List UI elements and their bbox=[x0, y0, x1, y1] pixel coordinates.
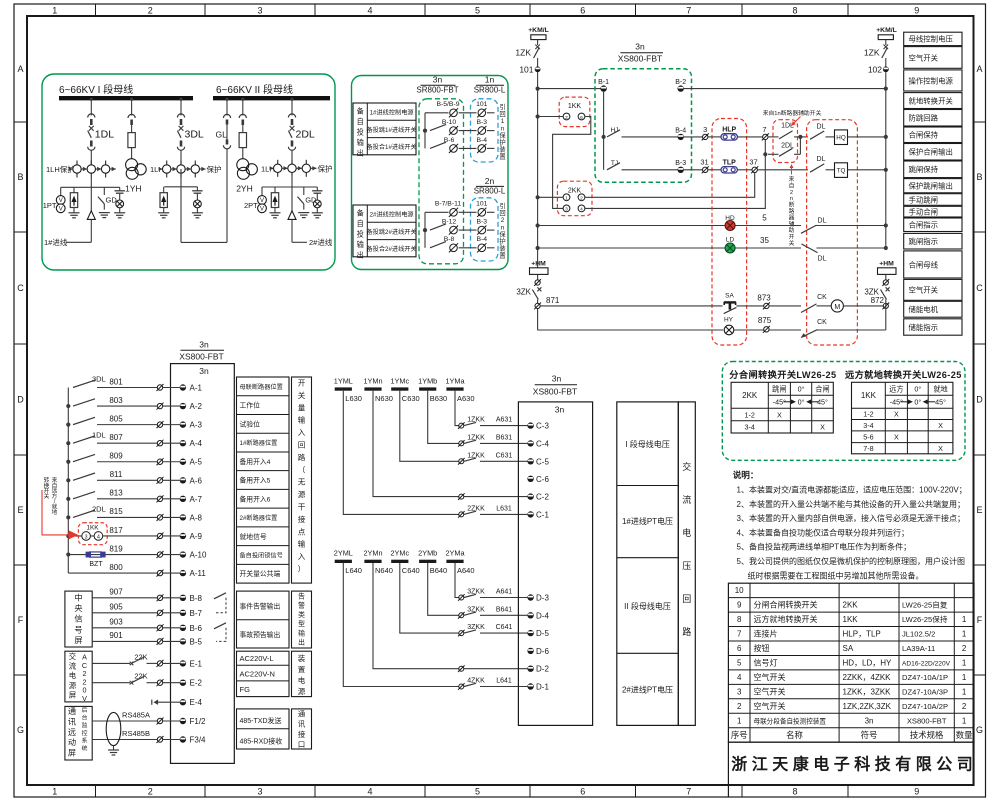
switching input group title bbox=[292, 377, 312, 583]
terminal D-2 bbox=[527, 666, 533, 672]
terminal A-4 input row bbox=[66, 441, 70, 445]
breaker 2DL plug-in contact bottom bbox=[291, 141, 294, 147]
svg-text:E: E bbox=[976, 505, 982, 515]
trip coil TQ bbox=[835, 163, 848, 178]
svg-text:2YMn: 2YMn bbox=[363, 549, 382, 558]
svg-text:事件告警输出: 事件告警输出 bbox=[240, 602, 281, 611]
svg-text:2n: 2n bbox=[485, 176, 495, 186]
wire HLP to 7 bbox=[737, 136, 762, 138]
trip indication row LD bbox=[536, 246, 540, 250]
svg-text:DZ47-10A/2P: DZ47-10A/2P bbox=[902, 702, 948, 711]
auto-transfer table bbox=[353, 205, 416, 257]
svg-text:分合闸转换开关LW26-25: 分合闸转换开关LW26-25 bbox=[729, 369, 836, 380]
function label 保护跳闸输出 bbox=[904, 179, 962, 193]
alarm output group title bbox=[292, 591, 312, 648]
function label 储能指示 bbox=[904, 319, 962, 335]
RS485 terminal F1/2 bbox=[157, 718, 162, 723]
svg-text:10: 10 bbox=[735, 586, 744, 595]
CT circle at x=166.7 bbox=[166, 161, 168, 178]
wire 3 to HLP bbox=[708, 136, 721, 138]
svg-text:B-3: B-3 bbox=[477, 119, 488, 126]
svg-text:SR800-L: SR800-L bbox=[474, 86, 506, 95]
svg-text:3n: 3n bbox=[433, 75, 443, 85]
signal row 905 bbox=[92, 612, 157, 614]
svg-text:8: 8 bbox=[792, 6, 797, 16]
terminal A-3 bbox=[157, 422, 162, 427]
PT 2PT windings bbox=[258, 196, 267, 205]
function label 操作控制电源 bbox=[904, 70, 962, 91]
parts list table bbox=[728, 583, 974, 742]
svg-text:HLP，TLP: HLP，TLP bbox=[843, 630, 881, 639]
svg-text:A-3: A-3 bbox=[190, 421, 203, 430]
closing coil HQ bbox=[835, 130, 848, 145]
svg-text:9: 9 bbox=[914, 6, 919, 16]
svg-text:远方就地转换开关LW26-25: 远方就地转换开关LW26-25 bbox=[845, 369, 962, 380]
voltage group table bbox=[617, 402, 679, 726]
CT circle at x=277.7 bbox=[277, 160, 279, 177]
svg-text:2、本装置的开入量公共端不能与其他设备的开入量公共端复用；: 2、本装置的开入量公共端不能与其他设备的开入量公共端复用； bbox=[737, 499, 965, 509]
wire 37 to DL trip contact bbox=[757, 169, 808, 171]
AC power panel box bbox=[65, 651, 92, 702]
svg-text:保护: 保护 bbox=[318, 164, 333, 174]
function label 合闸保持 bbox=[904, 127, 962, 143]
capacitor divider bbox=[316, 187, 318, 191]
alarm output labels table bbox=[237, 591, 290, 648]
svg-text:1KK: 1KK bbox=[568, 103, 582, 110]
svg-text:6~66KV II 段母线: 6~66KV II 段母线 bbox=[216, 83, 293, 96]
terminal A-2 input row bbox=[66, 404, 70, 408]
svg-text:远方: 远方 bbox=[889, 385, 903, 394]
svg-text:5、我公司提供的图纸仅仅是微机保护的控制原理图，用户设计图: 5、我公司提供的图纸仅仅是微机保护的控制原理图，用户设计图 bbox=[737, 556, 965, 566]
svg-text:V: V bbox=[59, 207, 63, 213]
function label 跳闸保持 bbox=[904, 161, 962, 178]
svg-text:XS800-FBT: XS800-FBT bbox=[618, 54, 662, 64]
collector line group3 bbox=[262, 186, 317, 188]
svg-text:符号: 符号 bbox=[861, 730, 878, 740]
svg-text:2KK: 2KK bbox=[843, 601, 859, 610]
svg-text:AD16-22D/220V: AD16-22D/220V bbox=[902, 660, 951, 667]
svg-text:+HM: +HM bbox=[531, 261, 546, 268]
svg-text:B: B bbox=[976, 172, 982, 182]
svg-text:GL: GL bbox=[216, 130, 228, 140]
svg-text:C-2: C-2 bbox=[536, 493, 549, 502]
selector table 2KK bbox=[731, 382, 833, 433]
contact DL row LD bbox=[802, 244, 818, 253]
svg-text:B-6: B-6 bbox=[444, 137, 455, 144]
svg-text:B641: B641 bbox=[496, 606, 512, 613]
contact row B-8 bbox=[430, 242, 446, 248]
wire 2KK row1 to 37 bbox=[585, 173, 755, 198]
svg-text:817: 817 bbox=[109, 526, 123, 535]
svg-text:2: 2 bbox=[148, 787, 153, 797]
CT circle at x=292 bbox=[291, 160, 293, 177]
svg-text:B-1: B-1 bbox=[598, 79, 609, 86]
svg-text:X: X bbox=[894, 433, 899, 442]
svg-text:1DL: 1DL bbox=[781, 123, 794, 130]
svg-text:2DL: 2DL bbox=[296, 129, 315, 141]
terminal A-2 bbox=[157, 403, 162, 408]
svg-text:空气开关: 空气开关 bbox=[754, 686, 786, 696]
XS800-FBT voltage box bbox=[518, 402, 592, 726]
svg-text:C631: C631 bbox=[496, 452, 513, 459]
svg-text:备自投闭锁信号: 备自投闭锁信号 bbox=[240, 551, 283, 559]
svg-text:RS485A: RS485A bbox=[122, 711, 150, 720]
contact row B-7/B-11 bbox=[425, 211, 449, 213]
output contact box DL HQ TQ (red) bbox=[807, 120, 858, 345]
breaker 3DL X mark bbox=[179, 126, 184, 131]
svg-text:+KM/L: +KM/L bbox=[528, 27, 549, 34]
terminal C-3 bbox=[527, 422, 533, 428]
surge arrester bbox=[163, 187, 165, 193]
breaker 2DL blade bbox=[288, 131, 292, 138]
svg-text:1: 1 bbox=[962, 658, 967, 667]
svg-text:HLP: HLP bbox=[722, 127, 736, 134]
voltage wire L631 bbox=[343, 391, 458, 515]
svg-text:储能指示: 储能指示 bbox=[909, 323, 939, 332]
terminal C-6 bbox=[527, 476, 533, 482]
svg-text:1、本装置对交/直流电源都能适应，适应电压范围：100V-2: 1、本装置对交/直流电源都能适应，适应电压范围：100V-220V； bbox=[737, 485, 967, 495]
breaker feeder 1DL drop bbox=[90, 100, 92, 116]
svg-text:X: X bbox=[894, 410, 899, 419]
svg-text:转换开关: 转换开关 bbox=[44, 476, 50, 500]
CT circle at x=306.3 bbox=[305, 160, 307, 177]
CT circle at x=181 bbox=[180, 161, 182, 178]
svg-text:1YMc: 1YMc bbox=[390, 376, 409, 385]
svg-text:A630: A630 bbox=[457, 394, 475, 403]
SR800-L dashed box 1n (blue) bbox=[471, 99, 499, 162]
svg-text:901: 901 bbox=[109, 631, 123, 640]
svg-text:D: D bbox=[976, 395, 983, 405]
terminal A-5 input row bbox=[66, 460, 70, 464]
svg-text:跳闸: 跳闸 bbox=[772, 385, 786, 394]
svg-text:815: 815 bbox=[109, 507, 123, 516]
terminal C-2 bbox=[527, 493, 533, 499]
svg-text:872: 872 bbox=[871, 296, 885, 305]
svg-text:开关量公共端: 开关量公共端 bbox=[240, 569, 281, 578]
svg-text:N630: N630 bbox=[375, 394, 393, 403]
wire 2KK row2 to 7 bbox=[585, 140, 765, 209]
breaker 1DL blade bbox=[88, 131, 92, 138]
svg-text:1YMa: 1YMa bbox=[445, 376, 465, 385]
svg-text:5: 5 bbox=[475, 787, 480, 797]
terminal A-9 row via 1KK bbox=[66, 534, 70, 538]
svg-text:B-5: B-5 bbox=[190, 637, 203, 646]
svg-text:1YML: 1YML bbox=[334, 376, 353, 385]
air switch 3ZKK bbox=[464, 594, 476, 597]
svg-text:+HM: +HM bbox=[879, 261, 894, 268]
svg-text:浙江天康电子科技有限公司: 浙江天康电子科技有限公司 bbox=[731, 755, 977, 774]
svg-text:3ZKK: 3ZKK bbox=[467, 606, 485, 613]
breaker aux contact box 1DL/2DL (red) bbox=[773, 120, 798, 163]
svg-text:RS485B: RS485B bbox=[122, 729, 150, 738]
feeder 1 down line bbox=[90, 219, 92, 242]
svg-text:A: A bbox=[976, 64, 982, 74]
svg-text:1n: 1n bbox=[485, 75, 495, 85]
svg-text:35: 35 bbox=[760, 236, 769, 245]
svg-text:E: E bbox=[17, 505, 23, 515]
svg-text:1ZKK: 1ZKK bbox=[467, 417, 485, 424]
svg-text:备用开入4: 备用开入4 bbox=[240, 457, 271, 466]
svg-text:2YMb: 2YMb bbox=[418, 549, 437, 558]
svg-text:E-4: E-4 bbox=[190, 698, 203, 707]
svg-text:1#断路器位置: 1#断路器位置 bbox=[240, 439, 278, 447]
svg-text:FG: FG bbox=[240, 685, 251, 694]
svg-text:7-8: 7-8 bbox=[863, 444, 873, 453]
svg-text:3ZKK: 3ZKK bbox=[467, 589, 485, 596]
svg-text:1YMb: 1YMb bbox=[418, 376, 437, 385]
svg-text:D-6: D-6 bbox=[536, 647, 549, 656]
wire rail to 1KK bbox=[536, 114, 540, 118]
svg-text:LW26-25自复: LW26-25自复 bbox=[902, 600, 948, 610]
CT row links bbox=[70, 168, 73, 170]
svg-text:5-6: 5-6 bbox=[863, 433, 873, 442]
svg-text:6: 6 bbox=[737, 644, 742, 653]
svg-text:TLP: TLP bbox=[723, 159, 737, 166]
terminal strip dashed box (green) bbox=[419, 99, 464, 264]
svg-text:3n: 3n bbox=[635, 42, 645, 52]
svg-text:3n: 3n bbox=[552, 374, 562, 384]
wire 31 to TLP bbox=[708, 169, 721, 171]
svg-text:1#进线控制电源: 1#进线控制电源 bbox=[370, 109, 414, 117]
svg-text:3: 3 bbox=[257, 787, 262, 797]
svg-text:试验位: 试验位 bbox=[240, 419, 261, 428]
function label 母线控制电压 bbox=[904, 32, 962, 45]
feeder 2 down line bbox=[291, 219, 293, 242]
svg-text:7: 7 bbox=[686, 6, 691, 16]
svg-text:备自投输出: 备自投输出 bbox=[357, 107, 364, 158]
svg-text:101: 101 bbox=[476, 201, 488, 208]
terminal A-8 input row bbox=[66, 515, 70, 519]
svg-text:2KK: 2KK bbox=[568, 188, 582, 195]
svg-text:2PT: 2PT bbox=[244, 201, 258, 210]
svg-text:事故预告输出: 事故预告输出 bbox=[240, 630, 281, 639]
svg-text:1ZKK: 1ZKK bbox=[467, 452, 485, 459]
terminal A-4 bbox=[157, 440, 162, 445]
svg-text:1#进线PT电压: 1#进线PT电压 bbox=[622, 516, 673, 526]
voltage transformer feeder 2YH bbox=[242, 100, 244, 116]
contact row B-10 bbox=[430, 124, 446, 130]
capacitor divider bbox=[119, 187, 121, 190]
svg-text:D-4: D-4 bbox=[536, 611, 549, 620]
svg-text:母联分段备自投测控装置: 母联分段备自投测控装置 bbox=[754, 716, 827, 725]
svg-text:1KK: 1KK bbox=[843, 615, 859, 624]
svg-text:G: G bbox=[17, 725, 24, 735]
svg-text:X: X bbox=[938, 444, 943, 453]
right rail bbox=[885, 72, 887, 248]
svg-text:1: 1 bbox=[962, 716, 967, 725]
svg-text:SA: SA bbox=[725, 293, 734, 300]
svg-text:A631: A631 bbox=[496, 417, 512, 424]
power supply labels table bbox=[237, 651, 290, 696]
svg-text:4: 4 bbox=[737, 673, 742, 682]
svg-text:合闸: 合闸 bbox=[815, 385, 829, 394]
svg-text:A-8: A-8 bbox=[190, 513, 203, 522]
svg-text:A-1: A-1 bbox=[190, 384, 203, 393]
svg-text:B-3: B-3 bbox=[477, 219, 488, 226]
svg-text:102: 102 bbox=[868, 64, 882, 74]
svg-text:0°: 0° bbox=[914, 398, 921, 407]
voltage wire A641 bbox=[455, 563, 459, 598]
XS800-FBT module dashed box (green) bbox=[595, 69, 692, 183]
svg-text:DL: DL bbox=[817, 156, 826, 163]
breaker 1DL plug-in contact top bbox=[88, 114, 95, 118]
svg-text:A-4: A-4 bbox=[190, 439, 203, 448]
svg-text:L640: L640 bbox=[345, 566, 362, 575]
svg-text:XS800-FBT: XS800-FBT bbox=[533, 387, 577, 397]
svg-text:SR800-FBT: SR800-FBT bbox=[416, 86, 458, 95]
svg-text:2YML: 2YML bbox=[334, 549, 353, 558]
svg-text:CK: CK bbox=[817, 319, 827, 326]
function label 手动跳闸 bbox=[904, 194, 962, 206]
svg-text:F: F bbox=[18, 615, 24, 625]
link bus vertical bbox=[424, 212, 426, 248]
svg-text:1LH: 1LH bbox=[261, 165, 275, 174]
svg-text:1: 1 bbox=[52, 6, 57, 16]
bus bar I bbox=[59, 96, 193, 100]
svg-text:1DL: 1DL bbox=[95, 129, 114, 141]
svg-text:数量: 数量 bbox=[956, 730, 973, 740]
svg-text:1YMn: 1YMn bbox=[363, 376, 382, 385]
svg-text:空气开关: 空气开关 bbox=[909, 286, 939, 295]
svg-text:DL: DL bbox=[818, 217, 827, 224]
voltage wire L641 bbox=[343, 563, 458, 687]
svg-text:6: 6 bbox=[580, 6, 585, 16]
svg-text:903: 903 bbox=[109, 618, 123, 627]
svg-text:22K: 22K bbox=[134, 672, 147, 681]
wire B-4 to terminal 3 bbox=[684, 136, 703, 138]
svg-text:8: 8 bbox=[737, 615, 742, 624]
svg-text:A-2: A-2 bbox=[190, 402, 203, 411]
fuse of 1YH bbox=[128, 133, 135, 148]
svg-text:E-1: E-1 bbox=[190, 659, 203, 668]
svg-text:C-6: C-6 bbox=[536, 475, 549, 484]
svg-text:SA: SA bbox=[843, 644, 854, 653]
svg-text:LW26-25保持: LW26-25保持 bbox=[902, 614, 948, 624]
svg-text:X: X bbox=[820, 423, 825, 432]
feeder 3DL line to CT row bbox=[180, 150, 182, 165]
svg-text:809: 809 bbox=[109, 452, 123, 461]
svg-text:来自1n断路器辅助开关: 来自1n断路器辅助开关 bbox=[763, 109, 822, 117]
terminal C-4 bbox=[527, 440, 533, 446]
svg-text:B-4: B-4 bbox=[477, 236, 488, 243]
breaker 1DL plug-in contact bottom bbox=[90, 141, 93, 147]
air switch 3ZKK bbox=[464, 630, 476, 633]
svg-text:3n: 3n bbox=[555, 405, 565, 415]
AC supply row E-2 bbox=[92, 682, 130, 684]
svg-text:L631: L631 bbox=[496, 505, 512, 512]
svg-text:工作位: 工作位 bbox=[240, 401, 261, 410]
terminal A-9 bbox=[157, 533, 162, 538]
svg-text:D-1: D-1 bbox=[536, 683, 549, 692]
svg-text:后台监控系统: 后台监控系统 bbox=[82, 706, 88, 752]
svg-text:II 段母线电压: II 段母线电压 bbox=[624, 601, 671, 611]
svg-text:分闸合闸转换开关: 分闸合闸转换开关 bbox=[754, 600, 818, 610]
terminal A-11 bbox=[157, 570, 162, 575]
svg-text:序号: 序号 bbox=[731, 730, 748, 740]
wire B-2 to right rail bbox=[684, 88, 886, 90]
svg-text:保护合闸输出: 保护合闸输出 bbox=[909, 148, 953, 157]
svg-text:0°: 0° bbox=[798, 385, 805, 394]
svg-text:800: 800 bbox=[109, 563, 123, 572]
signal row 901 bbox=[92, 640, 157, 642]
svg-text:31: 31 bbox=[700, 158, 708, 167]
terminal A-10 row with BZT link bbox=[66, 552, 70, 556]
svg-text:1-2: 1-2 bbox=[745, 410, 755, 419]
connection strip box HLP TLP (red) bbox=[712, 119, 747, 346]
svg-text:技术规格: 技术规格 bbox=[910, 730, 944, 740]
terminal A-1 input row bbox=[73, 380, 95, 387]
terminal D-3 bbox=[527, 594, 533, 600]
svg-text:1ZKK，3ZKK: 1ZKK，3ZKK bbox=[843, 687, 892, 696]
function label 空气开关 bbox=[904, 47, 962, 69]
2KK selector box (red) bbox=[557, 181, 592, 216]
function label 保护合闸输出 bbox=[904, 144, 962, 161]
svg-text:3、本装置的开入量内部自供电源，接入信号必须是无源干接点；: 3、本装置的开入量内部自供电源，接入信号必须是无源干接点； bbox=[737, 513, 965, 523]
function label 合闸母线 bbox=[904, 251, 962, 278]
svg-text:母联断路器位置: 母联断路器位置 bbox=[240, 383, 283, 391]
svg-text:811: 811 bbox=[110, 470, 123, 479]
svg-text:2#进线: 2#进线 bbox=[309, 237, 333, 247]
svg-text:合闸指示: 合闸指示 bbox=[909, 221, 939, 230]
svg-text:DZ47-10A/1P: DZ47-10A/1P bbox=[902, 673, 948, 682]
svg-text:1ZK,2ZK,3ZK: 1ZK,2ZK,3ZK bbox=[843, 702, 892, 711]
svg-text:1ZKK: 1ZKK bbox=[467, 434, 485, 441]
svg-text:805: 805 bbox=[109, 414, 123, 423]
svg-text:XS800-FBT: XS800-FBT bbox=[179, 352, 223, 362]
svg-text:B631: B631 bbox=[496, 434, 512, 441]
link BZT bbox=[89, 551, 102, 553]
svg-text:HQ: HQ bbox=[836, 135, 846, 142]
terminal A-11 common row bbox=[68, 572, 157, 574]
svg-text:备投跳1#进线开关: 备投跳1#进线开关 bbox=[366, 126, 416, 134]
svg-text:871: 871 bbox=[546, 296, 560, 305]
svg-text:1DL: 1DL bbox=[92, 430, 106, 439]
svg-text:F: F bbox=[977, 615, 983, 625]
svg-text:873: 873 bbox=[757, 293, 771, 302]
svg-text:+KM/L: +KM/L bbox=[876, 27, 897, 34]
svg-text:来自2n断路器辅助开关: 来自2n断路器辅助开关 bbox=[789, 176, 795, 247]
svg-text:备用开入6: 备用开入6 bbox=[240, 494, 271, 503]
svg-text:JL102.5/2: JL102.5/2 bbox=[902, 630, 935, 639]
svg-text:AC220V: AC220V bbox=[82, 653, 87, 704]
svg-text:B-8: B-8 bbox=[444, 236, 455, 243]
svg-text:3: 3 bbox=[703, 125, 707, 134]
voltage wire C641 bbox=[400, 563, 459, 633]
svg-text:A640: A640 bbox=[457, 566, 475, 575]
svg-text:7: 7 bbox=[686, 787, 691, 797]
svg-text:B-4: B-4 bbox=[675, 127, 686, 134]
svg-text:I 段母线电压: I 段母线电压 bbox=[625, 439, 669, 449]
svg-text:1-2: 1-2 bbox=[863, 410, 873, 419]
svg-text:3: 3 bbox=[737, 687, 742, 696]
svg-text:A-7: A-7 bbox=[190, 495, 203, 504]
svg-text:就地转换开关: 就地转换开关 bbox=[909, 96, 954, 105]
svg-text:1YH: 1YH bbox=[125, 184, 142, 194]
air switch 1ZKK bbox=[464, 422, 476, 425]
terminal A-6 input row bbox=[66, 478, 70, 482]
communication panel box bbox=[65, 706, 92, 760]
svg-text:1KK: 1KK bbox=[86, 524, 99, 531]
svg-text:AC220V-L: AC220V-L bbox=[240, 654, 274, 663]
svg-text:HD，LD，HY: HD，LD，HY bbox=[843, 658, 893, 667]
contact row B-6 bbox=[430, 142, 446, 148]
svg-text:B-3: B-3 bbox=[675, 160, 686, 167]
wire B-3 to terminal 31 bbox=[684, 169, 703, 171]
XS800-FBT terminal box bbox=[171, 364, 235, 764]
svg-text:2: 2 bbox=[148, 6, 153, 16]
svg-text:C: C bbox=[976, 283, 983, 293]
title block edge through bottom band bbox=[727, 785, 729, 797]
